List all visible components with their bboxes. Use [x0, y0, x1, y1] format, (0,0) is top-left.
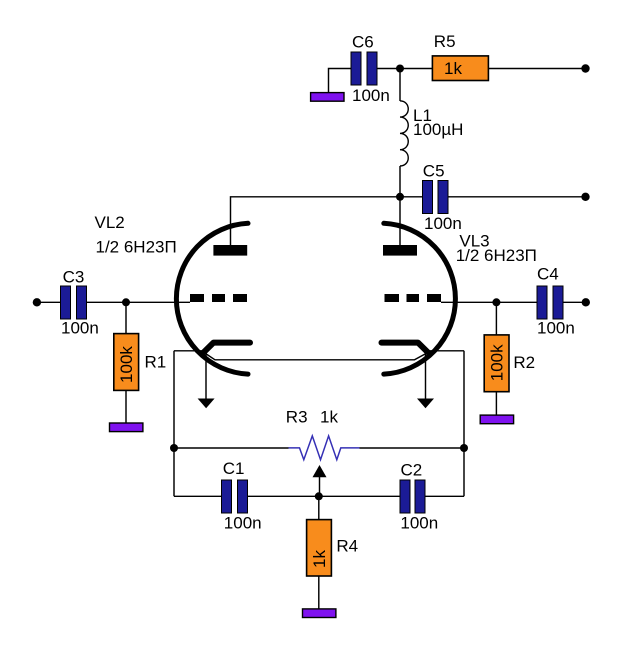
svg-text:1k: 1k: [310, 550, 329, 568]
wire right vertical: [463, 351, 465, 497]
terminal mid-right: [581, 193, 589, 201]
inductor L1: [400, 101, 463, 166]
VL3 anode lead: [399, 197, 401, 245]
resistor R3 (zigzag): [286, 407, 360, 459]
VL3 grid dashes: [385, 294, 442, 302]
VL3 cathode arrow: [417, 352, 434, 408]
svg-text:100k: 100k: [117, 346, 136, 383]
node at C6/R5/L1 junction: [396, 65, 404, 73]
VL3 cathode: [382, 343, 428, 352]
wire node down to R2: [495, 302, 497, 335]
svg-text:1k: 1k: [320, 407, 338, 426]
node rail1 right: [460, 444, 468, 452]
wire L1 to node2: [399, 166, 401, 197]
svg-text:VL2: VL2: [95, 213, 125, 232]
svg-text:C3: C3: [63, 267, 85, 286]
wire R2 to ground: [495, 392, 497, 416]
wire rail2 left: [174, 495, 222, 497]
node rail2 center: [315, 492, 323, 500]
wire VL3 grid to R2 node: [441, 301, 537, 303]
VL2 cathode: [204, 343, 250, 352]
wire C6 to node: [377, 68, 400, 70]
VL2 anode plate: [213, 245, 247, 256]
resistor R5: [432, 32, 488, 81]
wire cathode cross link: [206, 354, 427, 360]
wire C6 left stub and down: [329, 69, 352, 94]
capacitor C6: [351, 32, 390, 105]
wire R4 to ground: [318, 576, 320, 609]
svg-text:R3: R3: [286, 407, 308, 426]
svg-text:R2: R2: [513, 353, 535, 372]
svg-text:100n: 100n: [352, 86, 390, 105]
wire R1 to ground: [125, 390, 127, 423]
node rail1 left: [170, 444, 178, 452]
wire rail1 left segment: [174, 447, 289, 449]
wire VL2 grid from node: [126, 301, 191, 303]
svg-text:1/2 6Н23П: 1/2 6Н23П: [456, 246, 537, 265]
wire left vertical: [173, 351, 175, 497]
wire rail1 right segment: [360, 447, 465, 449]
svg-text:100n: 100n: [400, 513, 438, 532]
R3 wiper arrow: [313, 465, 327, 496]
wire node to R4: [318, 496, 320, 519]
svg-text:R1: R1: [145, 352, 167, 371]
wire C2 to right vertical: [425, 495, 464, 497]
VL2 grid dashes: [190, 294, 247, 302]
node grid VL3 / R2: [492, 298, 500, 306]
wire node to R5: [400, 68, 432, 70]
svg-text:100n: 100n: [224, 514, 262, 533]
svg-text:C6: C6: [352, 32, 374, 51]
svg-text:C5: C5: [423, 162, 445, 181]
wire anode rail y=197: [231, 197, 423, 245]
node at L1 bottom / VL3 anode: [396, 193, 404, 201]
ground G3 (R2): [480, 415, 513, 424]
triode VL2 envelope: [176, 223, 248, 374]
wire VL3 cathode to right rail: [428, 350, 465, 352]
wire VL2 cathode to left rail: [174, 350, 204, 352]
svg-text:100n: 100n: [61, 319, 99, 338]
svg-text:C2: C2: [401, 460, 423, 479]
capacitor C5: [423, 162, 462, 233]
ground G2 (R1): [110, 423, 143, 432]
wire C5 to mid-right terminal: [449, 196, 586, 198]
ground G4 (R4): [303, 609, 336, 618]
VL3 anode plate: [383, 245, 417, 256]
terminal input: [33, 298, 41, 306]
wire R5 to top-right terminal: [488, 68, 585, 70]
svg-text:1k: 1k: [444, 59, 462, 78]
wire node to L1: [399, 69, 401, 102]
svg-text:100µH: 100µH: [413, 120, 463, 139]
wire input to C3: [37, 301, 61, 303]
terminal output: [582, 298, 590, 306]
resistor R1: [114, 334, 166, 391]
VL2 cathode arrow: [198, 352, 215, 408]
wire C4 to output terminal: [563, 301, 586, 303]
wire C3 to grid node: [87, 301, 126, 303]
ground G1 (C6): [311, 93, 344, 102]
resistor R4: [307, 520, 359, 576]
wire node down to R1: [125, 302, 127, 333]
svg-text:100k: 100k: [487, 344, 506, 381]
terminal top-right: [581, 64, 589, 72]
svg-text:1/2 6Н23П: 1/2 6Н23П: [96, 237, 177, 256]
capacitor C1: [222, 459, 262, 532]
capacitor C3: [61, 267, 99, 337]
svg-text:100n: 100n: [537, 319, 575, 338]
svg-text:C4: C4: [537, 265, 559, 284]
resistor R2: [484, 335, 535, 392]
capacitor C2: [400, 460, 438, 532]
triode VL3 envelope: [384, 223, 456, 374]
capacitor C4: [537, 265, 575, 338]
wire C1 to center node: [248, 495, 401, 497]
svg-text:R4: R4: [336, 537, 358, 556]
node grid VL2 / R1: [122, 298, 130, 306]
svg-text:R5: R5: [434, 32, 456, 51]
svg-text:C1: C1: [223, 459, 245, 478]
svg-text:100n: 100n: [424, 214, 462, 233]
